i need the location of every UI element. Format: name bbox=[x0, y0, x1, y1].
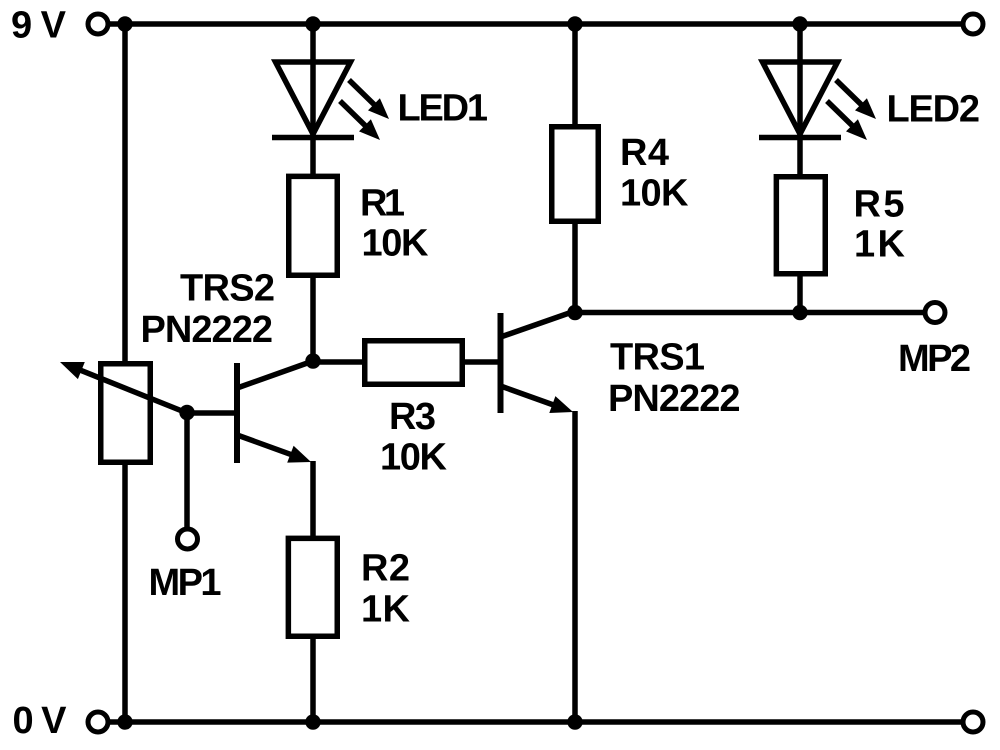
wire base node to TRS2 base bbox=[187, 410, 234, 416]
wire R4 bottom to node B bbox=[572, 222, 578, 313]
terminal 9V right bbox=[963, 14, 983, 34]
svg-text:R4: R4 bbox=[620, 132, 669, 174]
potentiometer box (left rail) bbox=[101, 364, 151, 463]
junction top rail x=575 bbox=[567, 16, 582, 31]
svg-text:10K: 10K bbox=[362, 223, 430, 265]
wire TRS2 emitter vertical to R2 top bbox=[310, 461, 316, 538]
junction R5 bottom bbox=[792, 305, 807, 320]
junction bottom rail x=575 bbox=[567, 714, 582, 729]
svg-text:MP1: MP1 bbox=[149, 562, 222, 604]
node A junction (R1/TRS2 collector/R3) bbox=[305, 353, 320, 368]
resistor R2 bbox=[288, 538, 337, 636]
resistor R3 (horizontal) bbox=[365, 341, 463, 385]
wire bottom rail 0V bbox=[98, 719, 973, 725]
svg-text:LED1: LED1 bbox=[398, 88, 489, 130]
svg-text:MP2: MP2 bbox=[898, 338, 971, 380]
wire base node to MP1 bbox=[184, 413, 190, 529]
svg-text:10K: 10K bbox=[620, 172, 689, 214]
wire top rail 9V bbox=[98, 21, 973, 27]
LED1 emission arrows bbox=[340, 80, 389, 140]
wire R2 bottom to 0V rail bbox=[310, 636, 316, 722]
terminal 9V left bbox=[88, 14, 108, 34]
resistor R5 bbox=[776, 177, 825, 274]
LED2 bbox=[759, 62, 841, 138]
junction top rail x=800 bbox=[792, 16, 807, 31]
terminal 0V right bbox=[963, 712, 983, 732]
svg-text:R1: R1 bbox=[360, 182, 405, 224]
wire R1 bottom to node A bbox=[310, 275, 316, 361]
svg-text:1K: 1K bbox=[361, 589, 411, 631]
svg-text:R2: R2 bbox=[361, 548, 410, 590]
svg-text:PN2222: PN2222 bbox=[141, 309, 274, 351]
terminal MP1 bbox=[178, 529, 198, 549]
svg-text:LED2: LED2 bbox=[887, 88, 981, 130]
wire left rail lower (potentiometer to 0V) bbox=[122, 463, 128, 722]
svg-text:9 V: 9 V bbox=[11, 5, 67, 47]
wire LED2 anode and through to R5 top bbox=[797, 24, 803, 177]
junction bottom rail x=125 bbox=[117, 714, 132, 729]
junction top rail x=313 bbox=[305, 16, 320, 31]
transistor TRS2 bbox=[237, 361, 313, 463]
wire node A to R3 left bbox=[313, 359, 367, 365]
resistor R4 bbox=[552, 127, 599, 222]
LED1 bbox=[272, 62, 354, 138]
wire TRS1 emitter vertical to 0V bbox=[572, 411, 578, 722]
wire R5 bottom to node B line bbox=[797, 274, 803, 313]
base node junction (pot wiper/MP1/TRS2 base) bbox=[179, 405, 194, 420]
wire left rail upper (9V to potentiometer) bbox=[122, 24, 128, 363]
node B junction (R4/TRS1 collector) bbox=[567, 305, 582, 320]
svg-text:R3: R3 bbox=[389, 396, 436, 438]
junction bottom rail x=313 bbox=[305, 714, 320, 729]
transistor TRS1 bbox=[501, 311, 576, 413]
resistor R1 bbox=[289, 176, 338, 275]
terminal MP2 bbox=[925, 303, 945, 323]
svg-text:R5: R5 bbox=[854, 184, 905, 226]
svg-text:1K: 1K bbox=[854, 224, 906, 266]
LED2 emission arrows bbox=[827, 80, 876, 140]
svg-text:TRS2: TRS2 bbox=[180, 268, 275, 310]
svg-text:PN2222: PN2222 bbox=[608, 378, 741, 420]
wire LED1 anode and through to R1 top bbox=[310, 24, 316, 176]
terminal 0V left bbox=[88, 712, 108, 732]
svg-text:10K: 10K bbox=[380, 437, 448, 479]
wire R3 right to TRS1 base bbox=[462, 359, 498, 365]
svg-text:0 V: 0 V bbox=[13, 700, 68, 742]
svg-text:TRS1: TRS1 bbox=[610, 337, 705, 379]
wire node B to MP2 bbox=[575, 310, 928, 316]
wire R4 top (9V rail to R4) bbox=[572, 24, 578, 126]
junction top rail x=125 bbox=[117, 16, 132, 31]
potentiometer wiper arrow bbox=[60, 362, 187, 413]
